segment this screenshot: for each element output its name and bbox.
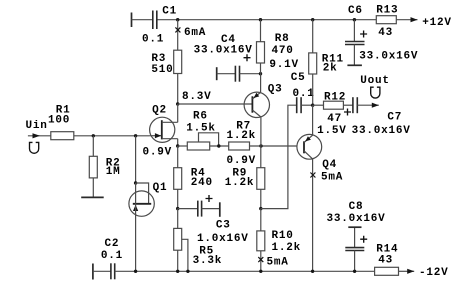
svg-text:5mA: 5mA <box>267 257 289 269</box>
wire R3 to node 8.3V <box>177 74 179 105</box>
resistor R3 <box>151 50 181 76</box>
wire 0.9V row to R6 <box>178 145 188 147</box>
svg-text:1.2k: 1.2k <box>227 130 257 142</box>
svg-text:Q1: Q1 <box>153 182 168 194</box>
wire R8 bottom lead <box>260 63 262 74</box>
svg-text:1.0x16V: 1.0x16V <box>197 233 249 245</box>
capacitor C2 <box>93 238 123 279</box>
svg-text:5mA: 5mA <box>321 172 343 184</box>
wire R4 bottom to node <box>177 189 179 208</box>
wire R11 bottom lead <box>312 74 314 105</box>
resistor R2 <box>89 156 120 178</box>
capacitor C4 <box>194 34 261 81</box>
resistor R7 <box>227 121 257 168</box>
resistor R4 <box>174 168 213 190</box>
svg-text:0.9V: 0.9V <box>227 155 257 167</box>
svg-text:1.2k: 1.2k <box>272 242 302 254</box>
terminal bar C6 bottom <box>347 64 362 66</box>
svg-text:0.9V: 0.9V <box>143 147 173 159</box>
wire R9 top lead <box>260 146 262 168</box>
transistor Q2 (N-JFET) <box>150 105 178 143</box>
node R5 on rail <box>176 270 179 273</box>
capacitor C1 <box>132 5 178 45</box>
wire bottom supply rail <box>115 270 375 272</box>
node R8/C4/Q3 emitter 9.1V <box>259 72 262 75</box>
svg-text:Q4: Q4 <box>322 159 337 171</box>
svg-text:47: 47 <box>327 113 342 125</box>
node R2 branch <box>92 134 95 137</box>
svg-text:C8: C8 <box>349 201 364 213</box>
node Q1 branch on input line <box>134 134 137 137</box>
svg-text:C7: C7 <box>387 112 402 124</box>
capacitor C3 <box>178 195 249 245</box>
wire R9 bottom lead <box>260 189 262 208</box>
wire Q1 source to bottom rail <box>135 204 137 271</box>
wire R2 bottom lead <box>92 178 94 198</box>
node R5 wiper on rail <box>186 270 189 273</box>
node R4/C3/R5 <box>176 207 179 210</box>
wire R5 top lead <box>177 209 179 229</box>
svg-text:+12V: +12V <box>422 17 452 29</box>
resistor R8 <box>257 33 299 71</box>
svg-text:R6: R6 <box>193 111 208 123</box>
power terminal +12V <box>396 17 451 29</box>
svg-text:C3: C3 <box>216 220 231 232</box>
wire R10 bottom lead with 5mA mark <box>258 251 288 271</box>
svg-text:C1: C1 <box>162 5 177 17</box>
resistor R11 <box>309 53 344 75</box>
node Q1 source on rail <box>134 270 137 273</box>
svg-text:R13: R13 <box>376 5 398 17</box>
capacitor C5 <box>291 72 315 113</box>
wire input node down to Q1 <box>135 136 137 183</box>
node 0.9V at Q2 source <box>143 144 180 158</box>
wire Q1 drain L-link <box>136 183 149 204</box>
transistor Q1 (JFET current source) <box>129 182 167 216</box>
wire R1 to Q2 gate <box>74 135 150 137</box>
node Q4 on rail <box>311 270 314 273</box>
resistor R9 <box>225 168 265 190</box>
svg-text:1.5k: 1.5k <box>186 123 216 135</box>
svg-text:6mA: 6mA <box>184 27 206 39</box>
node Q3 collector / R9 <box>259 144 262 147</box>
wire R5 bottom lead <box>177 250 179 271</box>
node C6 on rail <box>353 18 356 21</box>
wire R11 top lead <box>312 20 314 53</box>
node R11 on rail <box>311 18 314 21</box>
transistor Q4 (PNP) <box>297 134 337 171</box>
svg-text:C2: C2 <box>105 238 120 250</box>
node R6 wiper tie <box>217 144 220 147</box>
wire R4 top lead <box>177 146 179 168</box>
wire R10 top lead <box>260 209 262 231</box>
svg-text:510: 510 <box>151 64 173 76</box>
svg-text:33.0x16V: 33.0x16V <box>327 213 386 225</box>
svg-text:Q2: Q2 <box>152 105 167 117</box>
ground terminal below R2 <box>81 196 104 198</box>
svg-text:0.1: 0.1 <box>101 250 123 262</box>
svg-text:R12: R12 <box>324 92 346 104</box>
resistor R1 <box>48 105 74 140</box>
capacitor C7 <box>343 97 410 137</box>
resistor R10 <box>257 230 301 254</box>
svg-text:2k: 2k <box>323 63 338 75</box>
svg-text:100: 100 <box>48 114 70 126</box>
svg-text:C6: C6 <box>348 5 363 17</box>
wire Q2 source to 0.9V node <box>177 139 179 146</box>
svg-text:R8: R8 <box>275 33 290 45</box>
source symbol Uin <box>30 142 39 153</box>
wire R6 to R7 <box>210 145 229 147</box>
svg-text:Uout: Uout <box>360 75 390 87</box>
resistor R13 <box>376 5 398 39</box>
node 8.3V <box>176 91 212 106</box>
svg-text:Uin: Uin <box>26 120 48 132</box>
node R10 on rail <box>259 270 262 273</box>
input terminal Uin <box>26 120 51 138</box>
svg-text:33.0x16V: 33.0x16V <box>194 45 253 57</box>
potentiometer R6 <box>186 111 218 150</box>
wire R3 top branch with 6mA mark <box>175 20 206 51</box>
capacitor C8 <box>327 201 386 271</box>
svg-text:Q3: Q3 <box>268 84 283 96</box>
terminal bar C3 right <box>219 202 221 217</box>
svg-text:0.1: 0.1 <box>293 88 315 100</box>
svg-text:1.5V: 1.5V <box>317 125 347 137</box>
svg-text:33.0x16V: 33.0x16V <box>359 51 418 63</box>
wire Q3 collector to 0.9V row <box>260 117 262 146</box>
resistor R12 <box>313 92 347 138</box>
transistor Q3 (PNP) <box>244 84 282 118</box>
node C8 on rail <box>353 270 356 273</box>
source symbol Uout <box>371 87 380 98</box>
svg-text:240: 240 <box>191 177 213 189</box>
potentiometer R5 <box>174 228 222 271</box>
svg-text:R10: R10 <box>272 230 294 242</box>
svg-text:8.3V: 8.3V <box>182 91 212 103</box>
wire Q4 emitter to output node <box>312 105 314 135</box>
svg-text:1M: 1M <box>106 166 121 178</box>
output terminal Uout <box>357 75 389 108</box>
node R9/R10/C5 leg <box>259 207 262 210</box>
wire 8.3V node to Q3 base <box>178 103 253 105</box>
wire Q3 emitter lead <box>260 74 262 93</box>
wire top supply rail <box>157 19 376 21</box>
svg-text:470: 470 <box>272 45 294 57</box>
capacitor C6 <box>345 5 418 65</box>
power terminal -12V <box>399 267 449 279</box>
svg-text:9.1V: 9.1V <box>269 59 299 71</box>
svg-text:1.2k: 1.2k <box>225 177 255 189</box>
terminal bar C8 top <box>348 226 361 228</box>
resistor R14 <box>375 244 399 276</box>
node junction C1/R3 on rail <box>176 18 179 21</box>
node output Q4 collector <box>311 104 314 107</box>
svg-text:-12V: -12V <box>419 267 449 279</box>
svg-text:C5: C5 <box>291 72 306 84</box>
wire C5 left leg <box>261 105 297 208</box>
wire R2 top lead <box>92 136 94 157</box>
node Q1 gate tie <box>134 181 137 184</box>
svg-text:3.3k: 3.3k <box>193 255 223 267</box>
wire R8 top lead <box>260 20 262 42</box>
svg-text:33.0x16V: 33.0x16V <box>352 125 411 137</box>
wire Q4 collector to rail with 5mA mark <box>310 159 343 271</box>
wire Q2 drain riser <box>177 104 179 122</box>
svg-text:0.1: 0.1 <box>142 33 164 45</box>
svg-text:43: 43 <box>378 255 393 267</box>
node R8 on rail <box>259 18 262 21</box>
wire R7 to Q4 base <box>250 145 297 147</box>
svg-text:43: 43 <box>378 27 393 39</box>
